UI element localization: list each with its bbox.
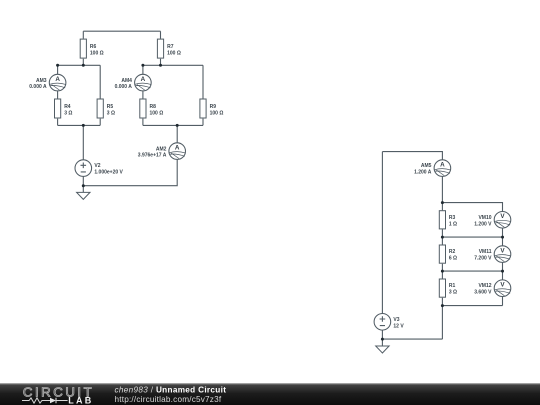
node R7 bottom bbox=[159, 64, 162, 67]
svg-text:R7: R7 bbox=[167, 44, 174, 50]
voltmeter VM11 bbox=[474, 246, 511, 263]
svg-text:0.000 A: 0.000 A bbox=[115, 84, 133, 90]
svg-text:3 Ω: 3 Ω bbox=[449, 290, 457, 296]
node R8-R9 bottom tee bbox=[176, 124, 179, 127]
wire AM3 to R4 bbox=[57, 91, 59, 99]
svg-text:VM12: VM12 bbox=[478, 283, 491, 289]
node section3 bottom left bbox=[441, 304, 444, 307]
node R6 bottom bbox=[82, 64, 85, 67]
svg-text:http://circuitlab.com/c5v7z3f: http://circuitlab.com/c5v7z3f bbox=[115, 395, 222, 404]
svg-text:AM2: AM2 bbox=[156, 146, 167, 152]
ammeter AM4 bbox=[115, 74, 152, 91]
svg-text:AM3: AM3 bbox=[36, 78, 47, 84]
wire right circuit top bbox=[382, 152, 442, 160]
svg-text:R5: R5 bbox=[107, 104, 114, 110]
svg-text:0.000 A: 0.000 A bbox=[29, 84, 47, 90]
svg-text:AM4: AM4 bbox=[121, 78, 132, 84]
svg-text:100 Ω: 100 Ω bbox=[167, 50, 181, 56]
svg-text:chen983 / Unnamed Circuit: chen983 / Unnamed Circuit bbox=[115, 386, 227, 395]
resistor R5 bbox=[97, 99, 115, 118]
svg-text:R1: R1 bbox=[449, 283, 456, 289]
svg-text:A: A bbox=[440, 161, 445, 168]
voltmeter VM12 bbox=[474, 280, 511, 297]
wire bottom right (R8/R9 to AM2) bbox=[143, 119, 203, 143]
ground (right circuit) bbox=[381, 339, 383, 346]
svg-text:7.200 V: 7.200 V bbox=[474, 256, 492, 262]
wire mid horizontal left (AM3/R6/R5 net) bbox=[58, 59, 101, 99]
node section1-2 right bbox=[501, 236, 504, 239]
svg-text:VM10: VM10 bbox=[478, 215, 491, 221]
svg-text:V2: V2 bbox=[94, 163, 100, 169]
logo zigzag resistor bbox=[22, 398, 50, 403]
svg-text:R2: R2 bbox=[449, 249, 456, 255]
wire AM5 to node bbox=[441, 176, 443, 210]
wire top left loop R6-R7 bbox=[83, 31, 160, 39]
svg-text:1 Ω: 1 Ω bbox=[449, 221, 457, 227]
svg-text:A: A bbox=[175, 144, 180, 151]
wire V2 bottom to AM2 bottom bbox=[83, 159, 177, 185]
svg-text:A: A bbox=[55, 76, 60, 83]
svg-text:LAB: LAB bbox=[68, 396, 93, 405]
wire section 2 bottom / section 3 top bbox=[442, 262, 502, 280]
resistor R1 bbox=[439, 279, 457, 297]
svg-text:R9: R9 bbox=[210, 104, 217, 110]
svg-text:12 V: 12 V bbox=[393, 323, 404, 329]
node AM5 bottom tee bbox=[441, 201, 444, 204]
wire mid horizontal right (AM4/R7/R9 net) bbox=[143, 59, 203, 99]
wire section 3 bottom bbox=[442, 297, 502, 340]
svg-text:3.600 V: 3.600 V bbox=[474, 290, 492, 296]
svg-text:100 Ω: 100 Ω bbox=[90, 50, 104, 56]
svg-text:3 Ω: 3 Ω bbox=[107, 110, 115, 116]
svg-text:R3: R3 bbox=[449, 215, 456, 221]
node section2-3 left bbox=[441, 270, 444, 273]
wire section 1 (R3/VM10 top) bbox=[442, 203, 502, 212]
node V2 bottom tee bbox=[82, 184, 85, 187]
svg-text:1.200 A: 1.200 A bbox=[414, 170, 432, 176]
svg-text:3.976e+17 A: 3.976e+17 A bbox=[138, 153, 167, 159]
ammeter AM5 bbox=[414, 160, 451, 177]
wire right circuit left vertical bbox=[381, 152, 383, 314]
resistor R9 bbox=[200, 99, 223, 118]
svg-text:6 Ω: 6 Ω bbox=[449, 256, 457, 262]
svg-text:1.200 V: 1.200 V bbox=[474, 221, 492, 227]
svg-text:3 Ω: 3 Ω bbox=[64, 110, 72, 116]
wire AM4 to R8 bbox=[142, 91, 144, 99]
resistor R8 bbox=[140, 99, 163, 118]
svg-text:AM5: AM5 bbox=[421, 163, 432, 169]
svg-text:V3: V3 bbox=[393, 317, 399, 323]
svg-text:A: A bbox=[141, 76, 146, 83]
node section1-2 left bbox=[441, 236, 444, 239]
logo diode bbox=[50, 398, 56, 404]
voltage source V3 bbox=[374, 314, 404, 331]
node V3 bottom tee bbox=[381, 338, 384, 341]
ground (left circuit) bbox=[82, 186, 84, 193]
ammeter AM3 bbox=[29, 74, 66, 91]
voltmeter VM10 bbox=[474, 212, 511, 229]
node section2-3 right bbox=[501, 270, 504, 273]
node R4-R5 bottom tee bbox=[82, 124, 85, 127]
ammeter AM2 bbox=[138, 143, 186, 160]
resistor R3 bbox=[439, 211, 457, 229]
resistor R7 bbox=[157, 39, 180, 58]
svg-text:R4: R4 bbox=[64, 104, 71, 110]
node above AM4 bbox=[141, 64, 144, 67]
svg-text:100 Ω: 100 Ω bbox=[150, 110, 164, 116]
svg-text:VM11: VM11 bbox=[479, 249, 492, 255]
resistor R6 bbox=[80, 39, 103, 58]
svg-text:R8: R8 bbox=[150, 104, 157, 110]
voltage source V2 bbox=[75, 160, 124, 177]
wire bottom (V3 to main) bbox=[382, 330, 442, 339]
svg-text:R6: R6 bbox=[90, 44, 97, 50]
resistor R4 bbox=[55, 99, 73, 118]
node above AM3 bbox=[56, 64, 59, 67]
wire bottom left (R4/R5 to V2) bbox=[58, 119, 101, 160]
svg-text:100 Ω: 100 Ω bbox=[210, 110, 224, 116]
wire section 1 bottom / section 2 top bbox=[442, 228, 502, 246]
svg-text:1.000e+20 V: 1.000e+20 V bbox=[94, 170, 123, 176]
resistor R2 bbox=[439, 245, 457, 263]
